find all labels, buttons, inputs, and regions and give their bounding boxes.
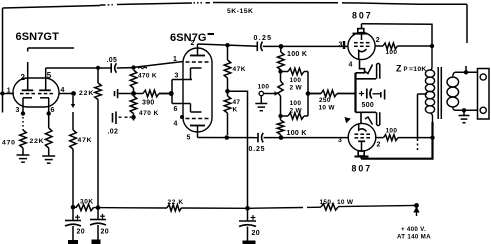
wire V2 plate to cap 0.25 upper: [198, 43, 258, 47]
node .02 junction: [131, 114, 136, 121]
node 47K junction: [225, 89, 230, 94]
807 upper cathode hook: [359, 34, 367, 59]
label 470K lower: [139, 110, 159, 117]
svg-text:4: 4: [61, 87, 65, 94]
svg-text:2 W: 2 W: [290, 108, 303, 115]
resistor 390: [134, 90, 171, 97]
wire grid2 to 47K with arrow: [71, 96, 75, 130]
svg-text:.02: .02: [108, 129, 119, 136]
tube 807 upper envelope: [348, 32, 375, 59]
capacitor 20uF mid: [90, 208, 106, 225]
svg-text:470 K: 470 K: [138, 73, 157, 80]
svg-text:3: 3: [175, 73, 179, 80]
807 upper pin 4 label: [349, 62, 353, 69]
label 100 screen lower: [386, 128, 398, 135]
label 470K upper: [138, 73, 157, 80]
svg-text:20: 20: [77, 229, 85, 236]
svg-text:470: 470: [2, 140, 16, 147]
svg-text:1: 1: [173, 56, 177, 63]
svg-text:470 K: 470 K: [139, 110, 159, 117]
wire 47K to bottom rail: [72, 149, 74, 207]
wire cap to 807 grid lower: [264, 135, 349, 140]
node plate/screen lower: [430, 135, 434, 139]
807 lower pin 3 label: [338, 137, 342, 144]
svg-text:2: 2: [377, 142, 381, 149]
V1 pin 3 label: [16, 107, 20, 114]
potentiometer 100 element: [278, 72, 283, 116]
label 20 left: [77, 229, 85, 236]
svg-text:10 W: 10 W: [337, 199, 354, 206]
label 47K lower: [233, 99, 241, 114]
807 upper pin 2 label: [376, 37, 380, 44]
svg-text:=10K: =10K: [409, 66, 427, 73]
label 47K: [78, 137, 93, 144]
resistor 250 10W: [308, 90, 355, 97]
resistor 470 ohm cathode: [20, 130, 27, 148]
tube V2 6SN7G envelope: [183, 48, 212, 132]
supply terminal +400V: [413, 203, 419, 216]
capacitor 500 plus: [359, 91, 364, 96]
svg-text:807: 807: [352, 11, 373, 21]
label 807 upper: [352, 11, 373, 21]
V1 pin 4 label: [61, 87, 65, 94]
wire cap .05 to node: [117, 65, 136, 69]
label tube V1 6SN7GT: [16, 31, 60, 43]
resistor 22K cathode: [45, 128, 52, 148]
node 390/470K: [131, 88, 136, 96]
V2 pin 6 stub: [172, 103, 191, 105]
V2 cathode B: [191, 104, 202, 113]
svg-text:10 W: 10 W: [319, 104, 336, 111]
wire cap to 807 grid upper: [263, 41, 349, 49]
ground cap left: [68, 226, 78, 244]
V2 grid B dashes: [186, 118, 209, 120]
node rail tail: [245, 206, 250, 211]
svg-text:P: P: [404, 67, 408, 73]
V2 pin 1 label: [173, 56, 177, 63]
label 500: [362, 102, 375, 109]
svg-text:150,: 150,: [320, 199, 334, 206]
capacitor 20uF left: [65, 207, 81, 226]
svg-text:5: 5: [47, 71, 52, 80]
svg-text:100: 100: [290, 100, 302, 107]
node plate/screen upper: [430, 44, 434, 48]
V2 grid A dashes: [186, 61, 209, 63]
transformer primary center tap: [418, 93, 428, 95]
V1 pin 3 cathode lead: [21, 107, 25, 130]
label 807 lower: [352, 164, 373, 174]
wire secondary top: [455, 70, 478, 74]
svg-text:5K-15K: 5K-15K: [227, 8, 253, 15]
resistor 100K lower: [277, 116, 284, 138]
capacitor 0.25 upper: [257, 42, 262, 52]
ground under 22K: [42, 148, 55, 163]
node 100K/2W lower: [278, 114, 282, 118]
wire bottom supply rail: [73, 205, 417, 208]
transformer primary winding: [425, 46, 434, 122]
svg-text:500: 500: [362, 102, 375, 109]
svg-text:2 W: 2 W: [290, 85, 303, 92]
807 lower annotation arrow: [345, 117, 351, 123]
svg-text:100: 100: [290, 77, 302, 84]
svg-text:20: 20: [252, 230, 260, 237]
label 22K cathode: [30, 138, 45, 145]
resistor 30K: [76, 204, 94, 210]
label 470: [2, 140, 16, 147]
svg-text:30K: 30K: [80, 198, 94, 205]
V1 plate A: [22, 78, 34, 90]
wire common tail: [228, 91, 248, 208]
svg-text:5: 5: [187, 135, 191, 142]
wire node to V2 pin1: [134, 62, 184, 69]
label 100 2W upper: [290, 77, 303, 92]
svg-text:K: K: [233, 107, 238, 114]
wire 807 upper plate to transformer: [362, 24, 433, 46]
node rail 22K-column: [96, 205, 101, 210]
label 100 screen upper: [386, 49, 398, 56]
wire secondary bottom: [455, 108, 478, 112]
wire right feedback drop: [466, 4, 467, 72]
V2 cathode bracket: [169, 80, 174, 104]
wire V2 pin5 to cap 0.25 lower: [198, 135, 259, 140]
label 20 right: [252, 230, 260, 237]
wire left feedback drop: [1, 8, 5, 113]
svg-text:100 K: 100 K: [287, 130, 307, 137]
svg-text:6SN7G: 6SN7G: [170, 32, 207, 44]
svg-text:Z: Z: [396, 64, 402, 74]
svg-text:AT 140 MA: AT 140 MA: [397, 234, 431, 241]
807 lower plate cap: [355, 151, 369, 159]
svg-text:100 K: 100 K: [287, 51, 307, 58]
resistor 100 screen lower: [376, 135, 433, 141]
svg-text:4: 4: [174, 121, 178, 128]
wire 22K to bottom rail: [97, 100, 99, 208]
V1 pin 2 label: [21, 73, 26, 82]
V1 plate B: [39, 78, 51, 90]
V2 pin 5 label: [187, 135, 191, 142]
resistor 47K upper plate load: [224, 45, 231, 89]
capacitor .05: [111, 63, 116, 73]
svg-text:6SN7GT: 6SN7GT: [16, 31, 60, 43]
label .05: [107, 57, 118, 64]
label 100K lower: [287, 130, 307, 137]
807 lower cathode structure: [356, 94, 380, 126]
svg-text:2: 2: [191, 40, 195, 47]
V2 pin 5 lead: [197, 132, 199, 138]
807 upper cathode structure: [356, 59, 380, 94]
V1 pin 1 label: [7, 88, 11, 95]
tube 807 lower envelope: [348, 123, 376, 151]
V1 pin 5 label: [47, 71, 52, 80]
label +400V: [401, 226, 426, 233]
resistor 22K plate feed: [95, 83, 102, 100]
V1 pin 6 cathode lead: [47, 107, 51, 128]
svg-text:3: 3: [338, 137, 342, 144]
wire node to 22K: [97, 68, 99, 83]
label 22K bottom: [168, 199, 184, 206]
label 0.25 lower: [249, 146, 266, 153]
wire 807 lower plate to transformer: [361, 122, 432, 159]
capacitor 500 second plates: [381, 90, 385, 100]
label 390: [142, 100, 155, 107]
label feedback resistor 5K-15K: [227, 8, 253, 15]
svg-text:22K: 22K: [30, 138, 45, 145]
resistor 470K lower: [130, 96, 137, 114]
svg-text:390: 390: [142, 100, 155, 107]
label AT 140MA: [397, 234, 431, 241]
svg-text:4: 4: [349, 62, 353, 69]
output terminal strip: [478, 69, 490, 120]
V1 grid A dashes: [20, 93, 35, 95]
pot wiper arrow: [264, 91, 279, 95]
wire V1 pin5 to cap .05: [46, 67, 112, 69]
svg-text:47K: 47K: [78, 137, 93, 144]
svg-text:100: 100: [258, 84, 270, 91]
V2 pin 6 label: [174, 106, 178, 113]
807 lower pin 2 label: [377, 142, 381, 149]
capacitor .02: [113, 112, 132, 125]
V2 pin 4 label: [174, 121, 178, 128]
capacitor 500: [367, 89, 380, 99]
wire B+ center tap drop: [417, 94, 419, 150]
resistor 100 2W upper: [281, 68, 309, 75]
label tube V2 6SN7G: [170, 32, 214, 44]
V2 cathode A: [191, 68, 202, 80]
V1 cathode B: [40, 98, 49, 107]
node junction at .05 line: [96, 66, 100, 70]
V1 pin 2 plate lead + wire: [28, 48, 74, 78]
resistor 150 10W: [321, 204, 338, 210]
svg-text:22K: 22K: [79, 90, 94, 97]
V1 pin 1 grid input wire: [0, 93, 14, 95]
svg-text:2: 2: [21, 73, 26, 82]
V1 pin 5 plate lead: [45, 68, 47, 78]
label 100K upper: [287, 51, 307, 58]
svg-text:22 K: 22 K: [168, 199, 184, 206]
label 20 mid: [101, 229, 109, 236]
transformer core: [438, 67, 441, 119]
svg-text:807: 807: [352, 164, 373, 174]
resistor 470K upper: [130, 70, 137, 88]
label .02: [108, 129, 119, 136]
label Zp=10K: [396, 64, 427, 74]
svg-text:100: 100: [386, 128, 398, 135]
ground at pot: [255, 96, 267, 111]
ground under 470: [17, 148, 30, 162]
svg-text:250: 250: [319, 97, 331, 104]
V2 pin 2 label: [191, 40, 195, 47]
svg-text:0.25: 0.25: [249, 146, 266, 153]
label 22K grid resistor: [79, 90, 94, 97]
807 lower cathode hook: [358, 124, 366, 151]
svg-text:1: 1: [7, 88, 11, 95]
svg-text:6: 6: [51, 107, 55, 114]
ground cap right: [243, 227, 256, 244]
label 100 pot: [258, 84, 270, 91]
node rail left: [71, 205, 76, 210]
V1 pin 4 grid wire: [59, 91, 76, 96]
svg-text:20: 20: [101, 229, 109, 236]
V2 pin 2 plate lead: [197, 44, 199, 48]
svg-text:3: 3: [339, 41, 343, 48]
resistor 100K upper: [278, 46, 285, 71]
V2 pin 4 dot on envelope: [180, 115, 184, 119]
wire top feedback rail: [3, 3, 468, 9]
tube V1 6SN7GT envelope: [13, 78, 59, 107]
ground secondary: [459, 110, 470, 122]
V1 cathode A: [23, 98, 32, 107]
807 upper grid dashes: [354, 43, 370, 47]
pot wiper terminal circle: [259, 91, 263, 95]
capacitor 20uF right: [239, 208, 256, 226]
V2 pin 3 stub: [172, 79, 192, 81]
capacitor 0.25 lower: [258, 133, 263, 143]
label 30K: [80, 198, 94, 205]
svg-text:.05: .05: [107, 57, 118, 64]
svg-text:0.25: 0.25: [254, 35, 273, 42]
V2 pin 3 label: [175, 73, 179, 80]
svg-text:2: 2: [376, 37, 380, 44]
V1 grid B dashes: [38, 93, 53, 95]
capacitor to node (plate blocking): [115, 89, 132, 98]
V2 plate B: [190, 126, 205, 133]
resistor 100 2W lower: [281, 113, 309, 120]
svg-text:100: 100: [386, 49, 398, 56]
svg-text:6: 6: [174, 106, 178, 113]
resistor 47K: [70, 130, 77, 149]
svg-text:47: 47: [233, 99, 241, 106]
807 upper pin 3 label: [339, 41, 343, 48]
label 150 10W: [320, 199, 354, 206]
V1 pin 6 label: [51, 107, 55, 114]
svg-text:47K: 47K: [233, 66, 246, 73]
svg-text:+ 400 V.: + 400 V.: [401, 226, 426, 233]
wire 2W right link: [306, 72, 311, 117]
resistor 47K lower plate load: [224, 93, 231, 135]
807 lower grid dashes: [355, 134, 371, 138]
label 250 10W: [319, 97, 336, 111]
label 0.25 upper: [254, 35, 273, 42]
node 100K/2W upper: [278, 69, 282, 73]
807 upper plate cap: [353, 24, 368, 34]
ground cap mid: [92, 225, 101, 244]
label 47K upper: [233, 66, 246, 73]
V2 plate A: [190, 48, 205, 56]
label 100 2W lower: [290, 100, 303, 115]
transformer secondary winding: [447, 72, 459, 110]
svg-text:3: 3: [16, 107, 20, 114]
resistor 100 screen upper: [375, 43, 432, 49]
resistor 22K bottom: [167, 205, 182, 211]
